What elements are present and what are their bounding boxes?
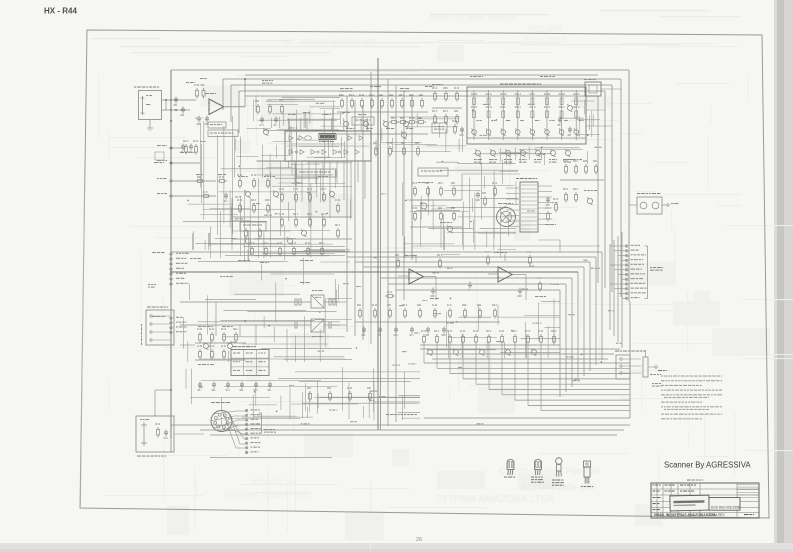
cluster lower mid row [420,331,560,356]
PO terminals [620,358,641,374]
pinout fig2 TO-92 [535,460,542,476]
DIN terminal strip [245,409,261,453]
cluster mid-right [560,159,604,205]
wire right lower vertical 8 [559,290,561,397]
sheet inner margin left [81,180,85,507]
vertical drops lower-left [216,302,256,345]
transistor row below array [474,149,572,163]
bottom-left box [136,416,174,452]
wire bottom bus 1 [171,424,630,426]
svg-text:Scanner By AGRESSIVA: Scanner By AGRESSIVA [664,461,751,470]
IC2 left parts [476,183,498,207]
PCI TONEARM box [139,91,162,120]
staircase right vertical [629,302,631,418]
value box row 2 [208,130,238,137]
wire left vertical 4 [238,91,240,133]
wire grid lower-left a [180,301,293,303]
wire above staircase 1 [420,348,620,350]
wire below DIN [120,452,332,457]
wire tonearm right pair [162,100,197,110]
wire mesh below opamp [188,204,250,250]
wire right mid tie 2 [586,125,612,127]
DIN outer circle [211,411,232,432]
wire bottom-left up [155,390,171,416]
value box row 1 [208,122,226,128]
wire array bottom [467,137,586,139]
sheet border frame [80,30,769,518]
flywheel terminal [662,203,679,206]
IC2 right parts [545,197,558,226]
wire mesh mid-left band [189,250,350,301]
parts on terminal wires [195,174,228,202]
wire center vertical 3 [362,105,364,340]
sprinkle components bottom band [198,382,372,402]
wire right lower vertical 1 [601,252,603,360]
wire above staircase 2 [426,353,614,355]
junction dots left vertical [170,99,172,391]
wire mesh below IC1 dense [232,163,352,260]
cluster between arrays [432,88,462,125]
cluster below IC1 [232,175,352,257]
wire conn bundle v2 [613,240,615,336]
title block small label [687,480,703,481]
labels above opamp [186,78,273,84]
pinout fig4 TO-220 [584,461,591,484]
table PS500 label [233,346,256,347]
ghost large text bottom [225,466,601,505]
wire conn bundle v3 [617,236,619,342]
fuse bar [643,350,648,377]
flywheel circle 2 [652,202,659,209]
cluster right of IC1 [389,117,464,139]
svg-text:5TTRMA AMAZONA LTDA: 5TTRMA AMAZONA LTDA [436,494,555,505]
wire top bus 4 [239,90,605,92]
wire mesh top band [254,96,340,128]
svg-text:26: 26 [416,537,422,543]
flywheel circle 1 [640,202,647,209]
IC2 vertical box [520,182,538,232]
NOTA text block [658,370,722,419]
wire opamp out [224,78,246,107]
title block box2 [709,498,740,511]
scanner strip right edge [774,0,793,552]
supply dashed box [154,152,164,163]
scanner credit [664,461,751,470]
wire center vertical 2 [354,100,356,336]
wire left vertical 3 [230,85,232,122]
svg-text:FCCOPO: FCCOPO [528,25,562,34]
op-amp IC4 [497,267,512,282]
left box mid terminals [150,315,170,341]
POT right terminal [648,366,661,375]
wire mid bus 4 [363,266,584,268]
wire bottom bus 3 [210,434,617,436]
IC1 outer box [285,131,371,161]
wire DIN top [190,398,270,411]
wire right mid tie 3 [601,88,621,90]
wire left col mid [170,200,172,252]
IC1 name sub [319,141,334,142]
resistor array outer box [467,87,586,144]
wire top bus 1 [171,69,629,71]
wire right lower vertical 4 [583,267,585,376]
pinout fig1 TO-92 [507,460,514,476]
title block texts [653,485,755,518]
left box mid [146,307,174,346]
svg-text:HX - R44: HX - R44 [44,7,77,16]
connector lead wires [610,246,625,298]
wire top bus 6 [245,74,598,76]
cluster servo parts [410,182,462,233]
wire mid connect c [412,245,600,247]
table PS500 grid [231,350,269,376]
DIN connector label [211,402,230,403]
ghost text top [282,12,568,47]
pinout fig3 TO-92 top [556,458,562,477]
connector J2 terminals [625,245,646,300]
sprinkle components top band [255,101,573,157]
wire conn bundle v4 [621,232,623,348]
wire left main vertical [170,70,172,438]
terminals left low [170,317,187,334]
wire grid lower-left d [332,302,347,325]
wire mid bus main [171,271,578,273]
labels lower-left [198,326,233,365]
wire center vertical 5 [377,58,379,430]
scattered junction dots [187,109,602,412]
terminals left mid [170,253,189,285]
wire mid bus 8 [396,289,560,291]
cluster above staircase [355,305,500,323]
switch wires [293,302,340,325]
IC4 wires [488,254,526,275]
wire conn bundle v1 [609,244,611,330]
wire right lower vertical 6 [571,278,573,387]
wire top bus 2 [223,78,621,80]
IC3 parts [385,255,442,300]
wire center vertical 6 [387,79,389,426]
caps row C105 C106 [180,144,195,154]
title block ruled area [737,485,759,498]
title block grid [651,483,759,518]
svg-text:9000-00 0000 000000: 9000-00 0000 000000 [430,12,518,22]
wire bottom-left right [174,433,204,435]
staircase bus [424,345,630,411]
PCI TONEARM label [134,87,159,88]
wire mid bus 3 [355,261,590,263]
wire top bus 3 [231,84,612,86]
vertical label PCI FLY [141,324,142,345]
wire mesh center gap [405,170,518,258]
svg-text:A12 B43 Ja6e-010: A12 B43 Ja6e-010 [519,482,595,492]
wire mesh array right gap [560,100,600,138]
svg-text:DGS DES 001/1998: DGS DES 001/1998 [711,506,740,510]
wire center vertical 4 [370,72,372,344]
wire right lower vertical 2 [595,257,597,365]
label sistema de controle [650,267,663,271]
low opamp link wires [436,275,526,301]
wire mesh lower mid [427,299,560,358]
inline connector bars [295,299,335,328]
wire mesh lower left [184,283,352,362]
title block stamp box [670,495,709,511]
wire mid bus 7 [388,283,566,285]
wire mesh IC1 left gap [235,129,292,178]
label fusivel [652,383,661,387]
svg-text:PUHY BALB: PUHY BALB [523,36,568,45]
wire right vertical 3 [611,85,613,292]
box top-mid sub [352,117,374,125]
bottom-left parts [140,419,168,446]
PO TERMINAIS box [616,355,630,379]
wire mid bus 6 [380,277,572,279]
wire right vertical 5 [597,96,599,283]
switch S2 [311,319,324,337]
wire mid connect a [462,174,520,200]
pinout fig2 label [531,477,544,483]
pinout fig4 label [581,486,593,487]
page number 26 [416,537,422,543]
scanner strip bottom edge [0,543,793,552]
title block outer [651,483,759,518]
wire left col join [170,290,172,318]
opamp feedback caps [197,116,210,125]
capacitor C102 [181,107,186,116]
opamp input resistors [194,85,205,99]
wire mid bus 2 [347,256,596,258]
capacitor C101 [174,97,179,106]
scattered value labels [195,103,621,425]
cartridge symbol [141,95,153,115]
box servo a [418,168,448,176]
wire mesh below array [473,147,588,165]
wire low join left [171,397,219,399]
label sistema controle 2 [264,429,276,433]
cluster lower-left [195,329,246,361]
bottom-left label [137,456,166,457]
wire center vertical 7 [395,85,397,422]
wire center vertical 9 [411,96,413,260]
wire grid lower-left c [180,344,195,346]
wire tonearm gnd [147,120,153,131]
crystal X1 box [584,79,601,96]
labels top band [432,76,555,85]
op-amp IC101 [208,99,224,115]
IC1 name box [319,134,336,140]
wire right vertical 2 [620,79,622,297]
IC2 hatch and pins [506,185,552,229]
switch S1 [311,290,324,308]
wire right vertical 1 [628,70,630,302]
wire center vertical 8 [403,91,405,300]
IC4 parts [468,252,547,298]
label IC101 [205,93,216,94]
wire mesh above bottom bus [224,367,420,420]
resistor R106 [193,141,198,155]
labels left margin [148,252,165,317]
pinout fig1 label [504,477,515,478]
wire mesh left block [183,100,345,259]
DIN bracket [259,413,262,433]
labels mid-left band [190,258,310,283]
svg-text:ehanuec epsilon-ahlu: ehanuec epsilon-ahlu [225,489,311,499]
junction tonearm [165,99,177,111]
IC2 label [516,178,537,179]
staircase bottom join [424,417,630,419]
motor M1 [497,203,516,227]
wire mesh bottom left band [186,369,420,419]
cluster top-mid resistors [337,95,428,135]
wires terminals upper [172,148,216,196]
wire center vertical 1 [346,96,348,332]
IC1 pin wires [289,118,368,219]
PCI FLYWHEEL label [637,193,660,194]
svg-text:HX-R44 REV: HX-R44 REV [706,513,726,517]
op-amp IC3 [408,269,423,284]
wire mid bus 1 [171,251,602,253]
resistor array label [500,84,541,85]
wire top bus 5 [245,95,598,97]
resistor array columns [471,90,584,140]
DIN pins [214,413,229,428]
wire right mid tie 1 [586,109,605,111]
resistor R105 [183,141,188,155]
svg-text:000 00 000 0 00 0000 000: 000 00 000 0 00 0000 000 [282,38,376,47]
PO TERMINAIS label [615,351,646,352]
label PCI PRINCIPAL [386,414,417,415]
wire above staircase 3 [432,358,608,360]
IC1 top labels [288,112,366,115]
wire right lower vertical 3 [589,262,591,371]
wire bottom bus 2 [200,429,624,431]
wire right lower vertical 7 [565,284,567,392]
cap row above staircase [362,327,447,336]
wire left vertical 2 [222,79,224,110]
flywheel box [637,197,662,214]
svg-text:000 0000 00: 000 0000 00 [250,478,295,487]
wire grid lower-left b [180,324,293,326]
pinout fig3 label [552,480,564,486]
labels top-mid [340,86,434,92]
page title HX - R44 [44,7,77,16]
labels terminals upper [157,145,167,194]
wire mesh top band 2 [267,100,345,158]
DIN fanout wires [211,410,245,448]
wire right lower vertical 5 [577,272,579,381]
labels below IC1 [238,176,328,261]
table PS500 box [231,350,269,376]
wire mesh mid block [403,159,516,250]
IC1 internal cells [287,136,369,155]
box below IC1 b [240,222,266,231]
IC3 wires [398,256,436,277]
wire center vertical 5b [380,100,382,430]
wire mesh right of IC1 [376,113,466,152]
wire mid connect b [538,240,560,252]
terminal group left upper [170,147,172,197]
wire bottom left drop [170,438,172,452]
box below IC1 a [296,169,336,177]
wire right vertical 4 [604,91,606,288]
connector bracket [645,246,648,299]
flywheel wire left [629,204,637,206]
